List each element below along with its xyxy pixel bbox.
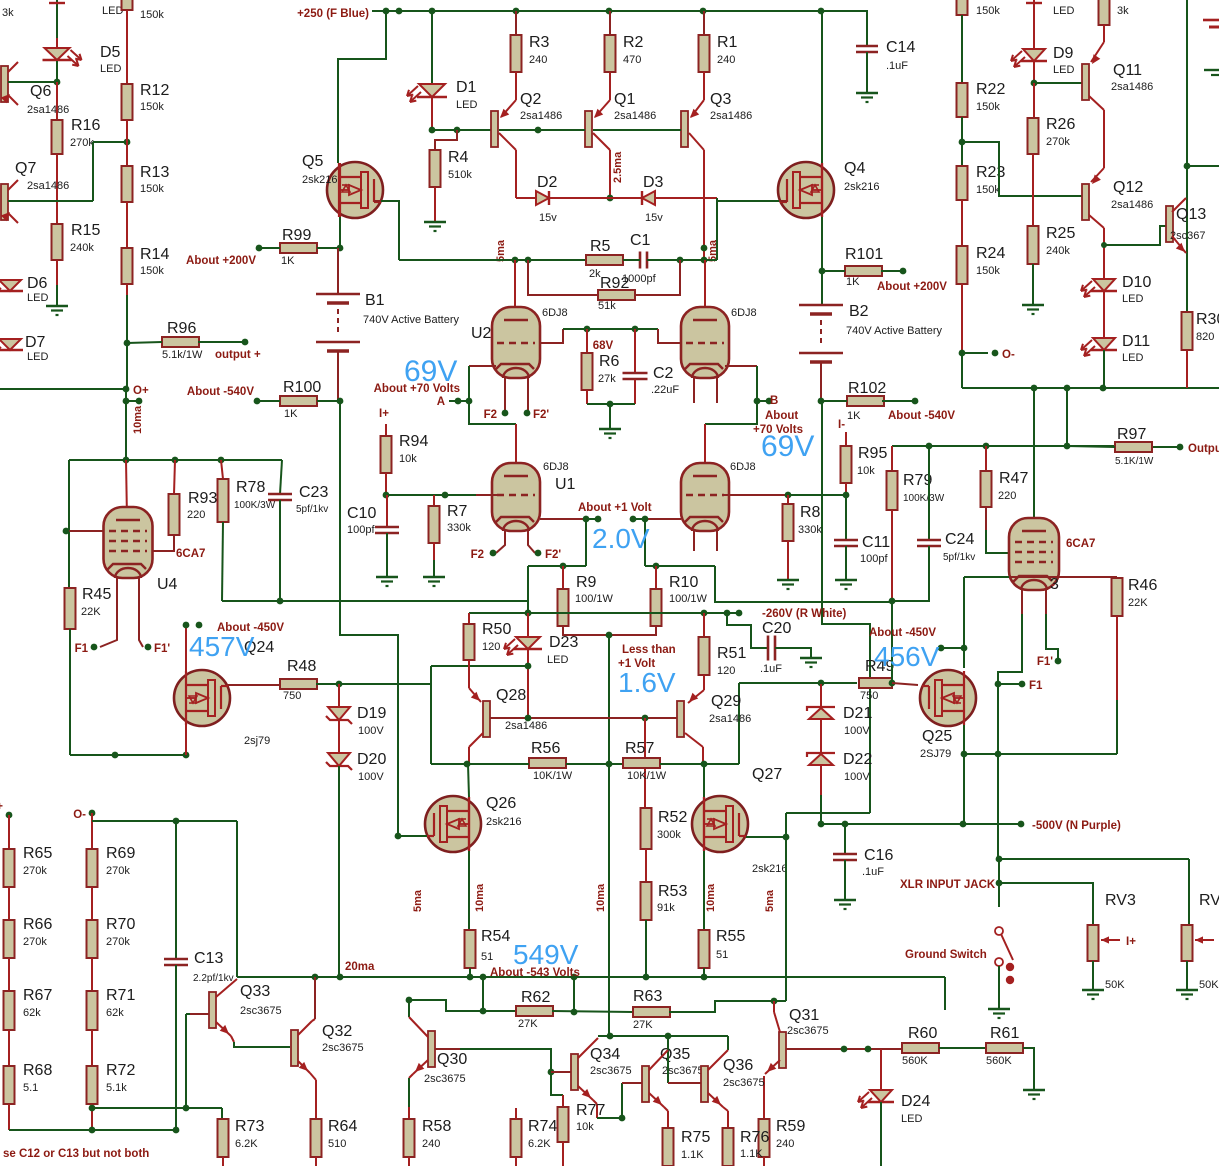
svg-text:Q11: Q11 xyxy=(1113,62,1142,79)
svg-text:549V: 549V xyxy=(513,939,579,970)
svg-text:240k: 240k xyxy=(1046,245,1070,257)
svg-text:R12: R12 xyxy=(140,82,169,99)
svg-text:O+: O+ xyxy=(133,385,149,397)
svg-text:150k: 150k xyxy=(140,9,164,21)
svg-text:10k: 10k xyxy=(399,453,417,465)
svg-text:C20: C20 xyxy=(762,620,791,637)
svg-text:R8: R8 xyxy=(800,504,821,521)
svg-text:se C12 or C13 but not both: se C12 or C13 but not both xyxy=(3,1148,149,1160)
svg-text:100/1W: 100/1W xyxy=(669,593,708,605)
svg-text:R68: R68 xyxy=(23,1062,52,1079)
svg-text:120: 120 xyxy=(717,665,735,677)
svg-text:270k: 270k xyxy=(23,936,47,948)
svg-text:F2: F2 xyxy=(484,409,497,421)
svg-text:R52: R52 xyxy=(658,809,687,826)
svg-text:457V: 457V xyxy=(189,631,255,662)
svg-text:270k: 270k xyxy=(1046,136,1070,148)
svg-text:6DJ8: 6DJ8 xyxy=(730,461,756,473)
svg-text:D24: D24 xyxy=(901,1093,930,1110)
svg-text:270k: 270k xyxy=(106,936,130,948)
svg-text:5ma: 5ma xyxy=(495,239,507,262)
svg-text:R63: R63 xyxy=(633,988,662,1005)
svg-text:R69: R69 xyxy=(106,845,135,862)
svg-text:5ma: 5ma xyxy=(412,889,424,912)
svg-text:LED: LED xyxy=(1053,5,1074,17)
svg-text:R47: R47 xyxy=(999,470,1028,487)
svg-text:R30: R30 xyxy=(1196,311,1219,328)
svg-text:D23: D23 xyxy=(549,634,578,651)
svg-text:10k: 10k xyxy=(576,1121,594,1133)
svg-text:C11: C11 xyxy=(862,534,890,551)
svg-text:R70: R70 xyxy=(106,916,135,933)
svg-text:2.0V: 2.0V xyxy=(592,523,650,554)
svg-text:R78: R78 xyxy=(236,479,265,496)
svg-text:456V: 456V xyxy=(874,641,940,672)
svg-text:91k: 91k xyxy=(657,902,675,914)
svg-text:R74: R74 xyxy=(528,1118,557,1135)
svg-text:240: 240 xyxy=(717,54,735,66)
svg-text:6CA7: 6CA7 xyxy=(1066,538,1095,550)
svg-text:150k: 150k xyxy=(976,265,1000,277)
svg-text:About +1 Volt: About +1 Volt xyxy=(578,502,652,514)
svg-text:1K: 1K xyxy=(284,408,298,420)
svg-text:R53: R53 xyxy=(658,883,687,900)
svg-text:R45: R45 xyxy=(82,586,111,603)
svg-text:R62: R62 xyxy=(521,989,550,1006)
svg-text:240: 240 xyxy=(422,1138,440,1150)
svg-text:R102: R102 xyxy=(848,380,886,397)
svg-text:R9: R9 xyxy=(576,574,597,591)
svg-text:R92: R92 xyxy=(600,275,629,292)
svg-text:Q5: Q5 xyxy=(302,153,323,170)
svg-text:Q25: Q25 xyxy=(922,728,952,745)
svg-text:510k: 510k xyxy=(448,169,472,181)
svg-text:B: B xyxy=(770,395,778,407)
svg-text:R23: R23 xyxy=(976,164,1005,181)
svg-text:U4: U4 xyxy=(157,576,178,593)
svg-text:D7: D7 xyxy=(25,334,46,351)
svg-text:R75: R75 xyxy=(681,1129,710,1146)
svg-text:240k: 240k xyxy=(70,242,94,254)
svg-text:2sk216: 2sk216 xyxy=(752,863,787,875)
svg-text:R56: R56 xyxy=(531,740,560,757)
svg-text:2sc3675: 2sc3675 xyxy=(723,1077,765,1089)
svg-text:820: 820 xyxy=(1196,331,1214,343)
svg-text:R71: R71 xyxy=(106,987,135,1004)
svg-text:69V: 69V xyxy=(404,355,457,388)
svg-text:22K: 22K xyxy=(1128,597,1148,609)
svg-text:100V: 100V xyxy=(358,771,384,783)
svg-text:2sk216: 2sk216 xyxy=(302,174,337,186)
svg-text:27K: 27K xyxy=(518,1018,538,1030)
svg-text:3: 3 xyxy=(1050,576,1059,593)
svg-text:R7: R7 xyxy=(447,503,468,520)
svg-text:F2: F2 xyxy=(471,549,484,561)
svg-text:.22uF: .22uF xyxy=(651,384,679,396)
svg-text:R55: R55 xyxy=(716,928,745,945)
svg-text:LED: LED xyxy=(1122,352,1143,364)
svg-text:R50: R50 xyxy=(482,621,511,638)
svg-text:Q34: Q34 xyxy=(590,1046,620,1063)
svg-text:R97: R97 xyxy=(1117,426,1146,443)
svg-text:D6: D6 xyxy=(27,275,48,292)
svg-text:R15: R15 xyxy=(71,222,100,239)
svg-text:100V: 100V xyxy=(844,771,870,783)
svg-text:1.1K: 1.1K xyxy=(740,1148,763,1160)
svg-text:I+: I+ xyxy=(379,408,389,420)
svg-text:740V Active Battery: 740V Active Battery xyxy=(846,325,942,337)
svg-text:R25: R25 xyxy=(1046,225,1075,242)
svg-text:Q30: Q30 xyxy=(437,1051,467,1068)
svg-text:F1': F1' xyxy=(154,643,170,655)
svg-text:D19: D19 xyxy=(357,705,386,722)
svg-text:Q28: Q28 xyxy=(496,687,526,704)
svg-text:F1: F1 xyxy=(1029,680,1043,692)
svg-text:3k: 3k xyxy=(1117,5,1129,17)
svg-text:.1uF: .1uF xyxy=(760,663,782,675)
svg-text:D3: D3 xyxy=(643,174,664,191)
svg-text:Q3: Q3 xyxy=(710,91,731,108)
svg-text:R2: R2 xyxy=(623,34,644,51)
svg-text:F1: F1 xyxy=(75,643,89,655)
svg-text:Q31: Q31 xyxy=(789,1007,819,1024)
svg-text:62k: 62k xyxy=(106,1007,124,1019)
svg-text:6DJ8: 6DJ8 xyxy=(731,307,757,319)
svg-text:D21: D21 xyxy=(843,705,872,722)
svg-text:R60: R60 xyxy=(908,1025,937,1042)
svg-text:C16: C16 xyxy=(864,847,893,864)
svg-text:100pf: 100pf xyxy=(860,553,888,565)
svg-text:2sa1486: 2sa1486 xyxy=(520,110,562,122)
svg-text:Less than: Less than xyxy=(622,644,676,656)
svg-text:Q1: Q1 xyxy=(614,91,635,108)
svg-text:2sk216: 2sk216 xyxy=(486,816,521,828)
svg-text:D11: D11 xyxy=(1122,333,1150,350)
svg-text:120: 120 xyxy=(482,641,500,653)
svg-text:D20: D20 xyxy=(357,751,386,768)
svg-text:output +: output + xyxy=(215,349,261,361)
svg-text:50K: 50K xyxy=(1199,979,1219,991)
svg-text:-260V (R White): -260V (R White) xyxy=(762,608,847,620)
svg-text:LED: LED xyxy=(1053,64,1074,76)
svg-text:R59: R59 xyxy=(776,1118,805,1135)
svg-text:O-: O- xyxy=(1002,349,1015,361)
svg-text:510: 510 xyxy=(328,1138,346,1150)
svg-text:I+: I+ xyxy=(1126,936,1136,948)
svg-text:LED: LED xyxy=(102,5,123,17)
svg-text:6.2K: 6.2K xyxy=(235,1138,258,1150)
svg-text:R96: R96 xyxy=(167,320,196,337)
svg-text:740V Active Battery: 740V Active Battery xyxy=(363,314,459,326)
svg-text:150k: 150k xyxy=(140,183,164,195)
svg-text:C14: C14 xyxy=(886,39,915,56)
svg-text:6.2K: 6.2K xyxy=(528,1138,551,1150)
svg-text:1K: 1K xyxy=(847,410,861,422)
svg-text:R93: R93 xyxy=(188,490,217,507)
svg-text:50K: 50K xyxy=(1105,979,1125,991)
svg-text:750: 750 xyxy=(860,690,878,702)
svg-text:Q32: Q32 xyxy=(322,1023,352,1040)
svg-text:C10: C10 xyxy=(347,505,376,522)
svg-text:R72: R72 xyxy=(106,1062,135,1079)
svg-text:2sc3675: 2sc3675 xyxy=(590,1065,632,1077)
svg-text:R46: R46 xyxy=(1128,577,1157,594)
svg-text:About +200V: About +200V xyxy=(877,281,947,293)
svg-text:LED: LED xyxy=(547,654,568,666)
svg-text:20ma: 20ma xyxy=(345,961,375,973)
svg-text:RV4: RV4 xyxy=(1199,892,1219,909)
svg-text:2sa1486: 2sa1486 xyxy=(710,110,752,122)
svg-text:10k: 10k xyxy=(857,465,875,477)
svg-text:Q27: Q27 xyxy=(752,766,782,783)
svg-text:R22: R22 xyxy=(976,81,1005,98)
svg-text:270k: 270k xyxy=(106,865,130,877)
svg-text:270k: 270k xyxy=(23,865,47,877)
svg-text:D22: D22 xyxy=(843,751,872,768)
svg-text:Q13: Q13 xyxy=(1176,206,1206,223)
svg-text:R24: R24 xyxy=(976,245,1005,262)
svg-text:Q29: Q29 xyxy=(711,693,741,710)
svg-text:R5: R5 xyxy=(590,238,611,255)
svg-text:51: 51 xyxy=(481,951,493,963)
svg-text:A: A xyxy=(437,396,445,408)
svg-text:C13: C13 xyxy=(194,950,223,967)
svg-text:15v: 15v xyxy=(645,212,663,224)
svg-text:R10: R10 xyxy=(669,574,698,591)
svg-text:5ma: 5ma xyxy=(764,889,776,912)
svg-text:D10: D10 xyxy=(1122,274,1151,291)
svg-text:1.1K: 1.1K xyxy=(681,1149,704,1161)
svg-text:100pf: 100pf xyxy=(347,524,375,536)
svg-text:R101: R101 xyxy=(845,246,883,263)
svg-text:2sc3675: 2sc3675 xyxy=(322,1042,364,1054)
svg-text:Ground Switch: Ground Switch xyxy=(905,949,987,961)
svg-text:2sa1486: 2sa1486 xyxy=(614,110,656,122)
svg-text:10ma: 10ma xyxy=(474,883,486,912)
svg-text:150k: 150k xyxy=(976,101,1000,113)
svg-text:5.1k: 5.1k xyxy=(106,1082,127,1094)
svg-text:.1uF: .1uF xyxy=(886,60,908,72)
svg-text:10K/1W: 10K/1W xyxy=(533,770,573,782)
svg-text:2sa1486: 2sa1486 xyxy=(1111,81,1153,93)
svg-text:C1: C1 xyxy=(630,232,651,249)
svg-text:300k: 300k xyxy=(657,829,681,841)
svg-text:R95: R95 xyxy=(858,445,887,462)
svg-text:About -540V: About -540V xyxy=(187,386,254,398)
svg-text:Q7: Q7 xyxy=(15,160,36,177)
svg-text:-500V (N Purple): -500V (N Purple) xyxy=(1032,820,1121,832)
svg-text:150k: 150k xyxy=(976,184,1000,196)
svg-text:R61: R61 xyxy=(990,1025,1019,1042)
svg-text:About: About xyxy=(765,410,798,422)
svg-text:6DJ8: 6DJ8 xyxy=(543,461,569,473)
svg-text:R54: R54 xyxy=(481,928,510,945)
svg-text:2sc3675: 2sc3675 xyxy=(240,1005,282,1017)
svg-text:R16: R16 xyxy=(71,117,100,134)
svg-text:R57: R57 xyxy=(625,740,654,757)
svg-text:XLR INPUT JACK: XLR INPUT JACK xyxy=(900,879,996,891)
svg-text:R58: R58 xyxy=(422,1118,451,1135)
svg-text:R14: R14 xyxy=(140,246,169,263)
svg-text:LED: LED xyxy=(901,1113,922,1125)
svg-text:240: 240 xyxy=(529,54,547,66)
svg-text:C23: C23 xyxy=(299,484,328,501)
svg-text:100V: 100V xyxy=(844,725,870,737)
svg-text:Q36: Q36 xyxy=(723,1057,753,1074)
svg-text:F1': F1' xyxy=(1037,656,1053,668)
svg-text:100K/3W: 100K/3W xyxy=(903,493,945,504)
svg-text:R77: R77 xyxy=(576,1102,605,1119)
svg-text:2SJ79: 2SJ79 xyxy=(920,748,951,760)
svg-text:2sa1486: 2sa1486 xyxy=(27,180,69,192)
svg-text:About +200V: About +200V xyxy=(186,255,256,267)
svg-text:2sa1486: 2sa1486 xyxy=(27,104,69,116)
svg-text:R4: R4 xyxy=(448,149,469,166)
svg-text:R26: R26 xyxy=(1046,116,1075,133)
svg-text:Output: Output xyxy=(1188,443,1219,455)
svg-text:560K: 560K xyxy=(902,1055,928,1067)
svg-text:R64: R64 xyxy=(328,1118,357,1135)
svg-text:2sc3675: 2sc3675 xyxy=(424,1073,466,1085)
svg-text:R13: R13 xyxy=(140,164,169,181)
svg-text:R76: R76 xyxy=(740,1129,769,1146)
svg-text:+: + xyxy=(0,801,3,813)
svg-text:1K: 1K xyxy=(281,255,295,267)
svg-text:Q12: Q12 xyxy=(1113,179,1143,196)
svg-text:F2': F2' xyxy=(533,409,549,421)
svg-text:2sa1486: 2sa1486 xyxy=(505,720,547,732)
svg-text:560K: 560K xyxy=(986,1055,1012,1067)
svg-text:150k: 150k xyxy=(140,101,164,113)
svg-text:69V: 69V xyxy=(761,430,814,463)
svg-text:22K: 22K xyxy=(81,606,101,618)
svg-text:220: 220 xyxy=(998,490,1016,502)
svg-text:2sk216: 2sk216 xyxy=(844,181,879,193)
svg-text:6CA7: 6CA7 xyxy=(176,548,205,560)
svg-text:10ma: 10ma xyxy=(132,405,144,434)
svg-text:100V: 100V xyxy=(358,725,384,737)
svg-text:+250 (F Blue): +250 (F Blue) xyxy=(297,8,369,20)
svg-text:R1: R1 xyxy=(717,34,738,51)
svg-text:62k: 62k xyxy=(23,1007,41,1019)
svg-text:100/1W: 100/1W xyxy=(575,593,614,605)
svg-text:3k: 3k xyxy=(2,7,14,19)
svg-text:220: 220 xyxy=(187,509,205,521)
svg-text:750: 750 xyxy=(283,690,301,702)
svg-text:5pf/1kv: 5pf/1kv xyxy=(943,552,975,563)
svg-text:Q26: Q26 xyxy=(486,795,516,812)
svg-text:D2: D2 xyxy=(537,174,558,191)
svg-text:Q6: Q6 xyxy=(30,83,51,100)
svg-text:U1: U1 xyxy=(555,476,576,493)
svg-text:51: 51 xyxy=(716,949,728,961)
svg-text:5.1k/1W: 5.1k/1W xyxy=(162,349,203,361)
svg-text:Q2: Q2 xyxy=(520,91,541,108)
svg-text:5pf/1kv: 5pf/1kv xyxy=(296,504,328,515)
svg-text:R67: R67 xyxy=(23,987,52,1004)
svg-text:68V: 68V xyxy=(593,340,614,352)
svg-text:2sj79: 2sj79 xyxy=(244,735,270,747)
svg-text:R51: R51 xyxy=(717,645,746,662)
svg-text:R99: R99 xyxy=(282,227,311,244)
svg-text:C24: C24 xyxy=(945,531,974,548)
svg-text:Q33: Q33 xyxy=(240,983,270,1000)
svg-text:1.6V: 1.6V xyxy=(618,667,676,698)
svg-text:470: 470 xyxy=(623,54,641,66)
svg-text:.1uF: .1uF xyxy=(862,866,884,878)
svg-text:About -543 Volts: About -543 Volts xyxy=(490,967,580,979)
svg-text:2sc3675: 2sc3675 xyxy=(787,1025,829,1037)
svg-text:About -450V: About -450V xyxy=(869,627,936,639)
svg-text:270k: 270k xyxy=(70,137,94,149)
svg-text:LED: LED xyxy=(1122,293,1143,305)
svg-text:D1: D1 xyxy=(456,79,477,96)
svg-text:D9: D9 xyxy=(1053,45,1074,62)
svg-text:5.1K/1W: 5.1K/1W xyxy=(1115,456,1154,467)
svg-text:5ma: 5ma xyxy=(707,239,719,262)
svg-text:LED: LED xyxy=(100,63,121,75)
svg-text:1K: 1K xyxy=(846,276,860,288)
svg-text:O-: O- xyxy=(73,809,86,821)
svg-text:LED: LED xyxy=(27,292,48,304)
svg-text:150k: 150k xyxy=(976,5,1000,17)
svg-text:R73: R73 xyxy=(235,1118,264,1135)
svg-text:F2': F2' xyxy=(545,549,561,561)
svg-text:10K/1W: 10K/1W xyxy=(627,770,667,782)
svg-text:R66: R66 xyxy=(23,916,52,933)
svg-text:About -540V: About -540V xyxy=(888,410,955,422)
svg-text:10ma: 10ma xyxy=(595,883,607,912)
svg-text:150k: 150k xyxy=(140,265,164,277)
svg-text:R3: R3 xyxy=(529,34,550,51)
svg-text:R48: R48 xyxy=(287,658,316,675)
svg-text:15v: 15v xyxy=(539,212,557,224)
svg-text:R100: R100 xyxy=(283,379,321,396)
svg-text:Q4: Q4 xyxy=(844,160,865,177)
svg-text:100K/3W: 100K/3W xyxy=(234,500,276,511)
svg-text:LED: LED xyxy=(456,99,477,111)
svg-text:U2: U2 xyxy=(471,325,492,342)
svg-text:R94: R94 xyxy=(399,433,428,450)
svg-text:C2: C2 xyxy=(653,365,674,382)
svg-text:27k: 27k xyxy=(598,373,616,385)
svg-text:I-: I- xyxy=(838,419,845,431)
svg-text:D5: D5 xyxy=(100,44,121,61)
svg-text:27K: 27K xyxy=(633,1019,653,1031)
svg-text:2sa1486: 2sa1486 xyxy=(1111,199,1153,211)
svg-text:2.2pf/1kv: 2.2pf/1kv xyxy=(193,973,234,984)
svg-text:2.5ma: 2.5ma xyxy=(612,151,624,183)
svg-text:330k: 330k xyxy=(798,524,822,536)
svg-text:R65: R65 xyxy=(23,845,52,862)
svg-text:51k: 51k xyxy=(598,300,616,312)
svg-text:2sa1486: 2sa1486 xyxy=(709,713,751,725)
svg-text:10ma: 10ma xyxy=(705,883,717,912)
svg-text:240: 240 xyxy=(776,1138,794,1150)
svg-text:6DJ8: 6DJ8 xyxy=(542,307,568,319)
svg-text:B1: B1 xyxy=(365,292,385,309)
svg-text:B2: B2 xyxy=(849,303,869,320)
svg-text:330k: 330k xyxy=(447,522,471,534)
svg-text:RV3: RV3 xyxy=(1105,892,1136,909)
svg-text:5.1: 5.1 xyxy=(23,1082,38,1094)
svg-text:LED: LED xyxy=(27,351,48,363)
svg-text:R6: R6 xyxy=(599,353,620,370)
